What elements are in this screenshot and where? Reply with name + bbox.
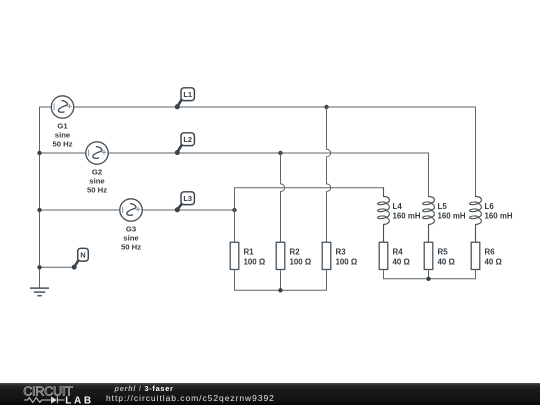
wire R5 bottom xyxy=(428,270,430,279)
svg-text:G3: G3 xyxy=(126,225,136,234)
wire R2 bottom xyxy=(280,270,282,291)
svg-text:40 Ω: 40 Ω xyxy=(485,257,502,266)
svg-text:100 Ω: 100 Ω xyxy=(244,257,266,266)
footer bar xyxy=(0,383,540,405)
svg-text:R2: R2 xyxy=(290,248,301,257)
wire L6 drop from L1 xyxy=(475,107,477,197)
wire G3 left stub xyxy=(40,209,120,211)
svg-text:R1: R1 xyxy=(244,248,255,257)
svg-text:160 mH: 160 mH xyxy=(485,212,513,221)
resistor R5 xyxy=(424,242,455,269)
svg-text:100 Ω: 100 Ω xyxy=(336,257,358,266)
footer text xyxy=(115,384,174,393)
svg-text:L2: L2 xyxy=(183,135,192,144)
junction (left rail / G3) xyxy=(37,208,41,212)
wire R1 branch top xyxy=(234,188,236,243)
junction (L2 / R2 branch) xyxy=(278,151,282,155)
junction (L3 / R1 branch) xyxy=(232,208,236,212)
svg-text:R6: R6 xyxy=(485,248,496,257)
junction (R5 / star rail) xyxy=(426,277,430,281)
wire L2 phase xyxy=(109,152,429,154)
wire G2 left stub xyxy=(40,152,86,154)
node label L2 xyxy=(175,133,195,155)
inductor L4 xyxy=(377,188,420,243)
resistor R6 xyxy=(471,242,502,269)
svg-text:sine: sine xyxy=(55,130,71,139)
wire R1 bottom xyxy=(234,270,236,291)
svg-text:160 mH: 160 mH xyxy=(438,212,466,221)
svg-text:R4: R4 xyxy=(393,248,404,257)
svg-text:50 Hz: 50 Hz xyxy=(87,185,107,194)
source G1 xyxy=(51,96,73,149)
resistor R3 xyxy=(322,242,357,269)
resistor R1 xyxy=(230,242,265,269)
svg-text:sine: sine xyxy=(123,233,139,242)
svg-text:R3: R3 xyxy=(336,248,347,257)
svg-text:40 Ω: 40 Ω xyxy=(438,257,455,266)
node label L3 xyxy=(175,192,195,213)
inductor L5 xyxy=(422,197,465,243)
wire L5 drop from L2 xyxy=(428,153,430,197)
node label N xyxy=(72,248,89,269)
wire left common vertical xyxy=(39,107,41,288)
node label L1 xyxy=(175,88,195,110)
CircuitLab logo xyxy=(0,383,100,405)
wire star-point rail (R1-R3) xyxy=(235,289,327,291)
svg-text:L5: L5 xyxy=(438,202,448,211)
svg-text:LAB: LAB xyxy=(65,395,93,405)
ground xyxy=(30,288,49,296)
svg-text:R5: R5 xyxy=(438,248,449,257)
resistor R4 xyxy=(379,242,410,269)
junction (left rail / N) xyxy=(37,265,41,269)
wire R3 bottom xyxy=(326,270,328,291)
wire L3 phase xyxy=(143,209,235,211)
source G2 xyxy=(86,142,108,195)
inductor L6 xyxy=(469,197,512,243)
svg-text:L6: L6 xyxy=(485,202,495,211)
svg-text:L3: L3 xyxy=(183,194,192,203)
svg-text:G2: G2 xyxy=(92,168,102,177)
junction (left rail / G2) xyxy=(37,151,41,155)
wire G1 left stub xyxy=(40,106,52,108)
wire neutral to N label xyxy=(40,266,75,268)
wire R3 branch with hops over L2 and rail xyxy=(327,107,331,242)
source G3 xyxy=(120,199,142,252)
svg-text:40 Ω: 40 Ω xyxy=(393,257,410,266)
junction (R2 / star rail) xyxy=(278,288,282,292)
svg-text:L1: L1 xyxy=(183,90,192,99)
svg-text:50 Hz: 50 Hz xyxy=(121,242,141,251)
wire R6 bottom xyxy=(475,270,477,279)
svg-text:G1: G1 xyxy=(57,122,68,131)
junction (L1 / R3 branch) xyxy=(324,105,328,109)
svg-text:100 Ω: 100 Ω xyxy=(290,257,312,266)
wire R2 branch with hop over rail xyxy=(281,153,285,242)
svg-text:N: N xyxy=(80,250,85,259)
wire L1 phase xyxy=(74,106,476,108)
svg-text:L4: L4 xyxy=(393,202,403,211)
resistor R2 xyxy=(276,242,311,269)
wire star-point rail (R4-R6) xyxy=(384,278,476,280)
svg-text:sine: sine xyxy=(89,176,105,185)
svg-text:160 mH: 160 mH xyxy=(393,212,421,221)
wire top rail to L4 xyxy=(235,187,384,189)
wire R4 bottom xyxy=(383,270,385,279)
svg-text:50 Hz: 50 Hz xyxy=(52,139,72,148)
